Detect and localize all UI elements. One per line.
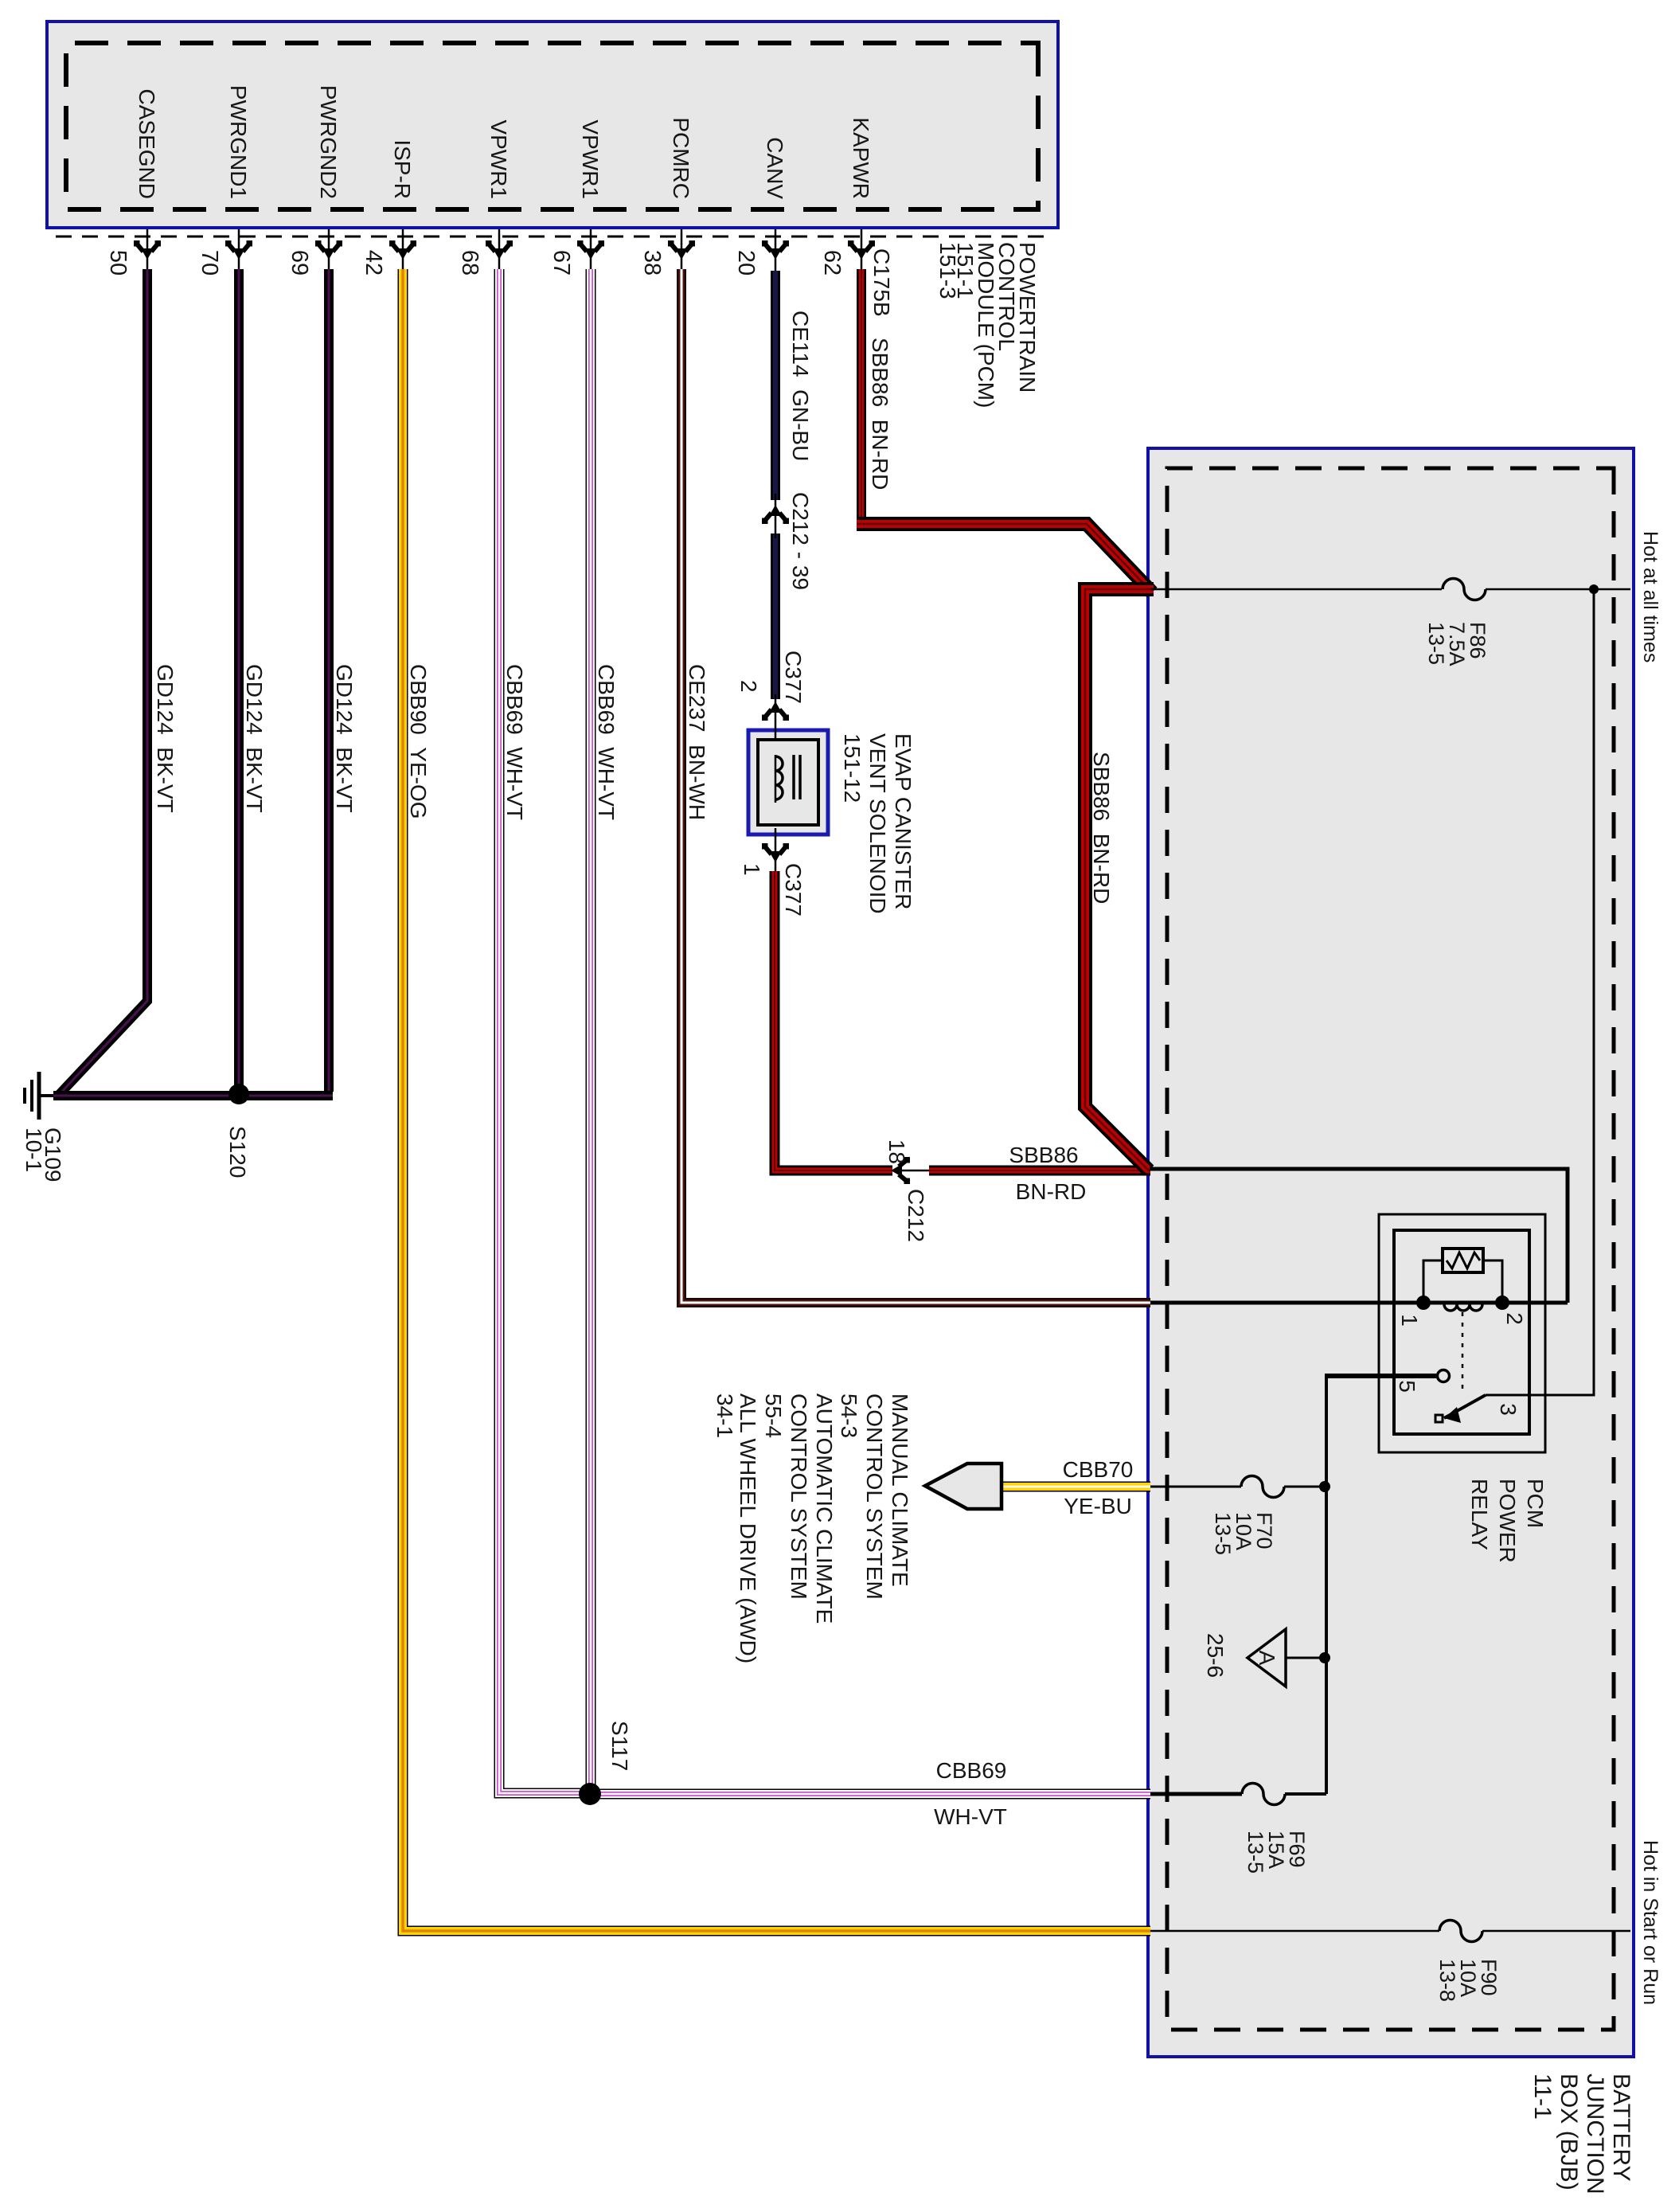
svg-text:CONTROL SYSTEM: CONTROL SYSTEM bbox=[862, 1393, 887, 1600]
svg-text:SBB86: SBB86 bbox=[1009, 1143, 1078, 1167]
svg-text:10-1: 10-1 bbox=[21, 1127, 46, 1172]
svg-text:50: 50 bbox=[105, 250, 131, 276]
svg-text:CANV: CANV bbox=[763, 137, 787, 199]
svg-text:10A: 10A bbox=[1232, 1512, 1255, 1550]
svg-text:70: 70 bbox=[197, 250, 222, 276]
svg-text:CASEGND: CASEGND bbox=[135, 89, 159, 199]
svg-text:GD124 BK-VT: GD124 BK-VT bbox=[332, 664, 357, 813]
svg-text:SBB86 BN-RD: SBB86 BN-RD bbox=[868, 338, 892, 490]
svg-text:MANUAL CLIMATE: MANUAL CLIMATE bbox=[888, 1393, 912, 1587]
svg-text:CBB69 WH-VT: CBB69 WH-VT bbox=[594, 664, 619, 820]
svg-text:F69: F69 bbox=[1285, 1831, 1309, 1868]
svg-text:EVAP CANISTER: EVAP CANISTER bbox=[891, 733, 916, 909]
svg-text:55-4: 55-4 bbox=[761, 1393, 786, 1438]
svg-text:1: 1 bbox=[1397, 1314, 1422, 1327]
svg-text:25-6: 25-6 bbox=[1203, 1633, 1228, 1678]
svg-text:POWER: POWER bbox=[1495, 1479, 1520, 1563]
svg-text:BN-RD: BN-RD bbox=[1016, 1179, 1087, 1204]
svg-text:RELAY: RELAY bbox=[1467, 1479, 1492, 1550]
svg-text:CBB69 WH-VT: CBB69 WH-VT bbox=[502, 664, 527, 820]
svg-text:GD124 BK-VT: GD124 BK-VT bbox=[242, 664, 267, 813]
svg-text:18: 18 bbox=[884, 1139, 909, 1164]
svg-text:151-3: 151-3 bbox=[935, 242, 960, 299]
svg-text:ALL WHEEL DRIVE (AWD): ALL WHEEL DRIVE (AWD) bbox=[736, 1393, 760, 1663]
svg-text:BATTERY: BATTERY bbox=[1608, 2073, 1634, 2182]
svg-text:VENT SOLENOID: VENT SOLENOID bbox=[865, 733, 890, 914]
svg-text:C175B: C175B bbox=[869, 248, 894, 317]
svg-text:F70: F70 bbox=[1252, 1512, 1276, 1550]
svg-text:VPWR1: VPWR1 bbox=[578, 119, 603, 199]
svg-text:2: 2 bbox=[1502, 1312, 1527, 1325]
svg-text:YE-BU: YE-BU bbox=[1064, 1494, 1132, 1518]
svg-text:38: 38 bbox=[639, 250, 665, 276]
svg-text:C212 - 39: C212 - 39 bbox=[788, 492, 813, 590]
svg-text:PWRGND2: PWRGND2 bbox=[316, 85, 341, 199]
svg-text:S117: S117 bbox=[607, 1721, 632, 1771]
svg-text:ISP-R: ISP-R bbox=[390, 139, 415, 199]
svg-text:42: 42 bbox=[361, 250, 386, 276]
svg-text:CBB69: CBB69 bbox=[936, 1758, 1007, 1783]
svg-text:13-5: 13-5 bbox=[1211, 1512, 1235, 1555]
svg-text:13-5: 13-5 bbox=[1424, 622, 1448, 665]
svg-text:15A: 15A bbox=[1264, 1831, 1288, 1869]
svg-text:S120: S120 bbox=[225, 1126, 250, 1178]
svg-text:3: 3 bbox=[1496, 1403, 1521, 1416]
svg-text:VPWR1: VPWR1 bbox=[486, 119, 511, 199]
svg-text:68: 68 bbox=[457, 250, 482, 276]
svg-text:13-8: 13-8 bbox=[1435, 1959, 1459, 2002]
svg-text:F86: F86 bbox=[1466, 622, 1490, 659]
svg-text:F90: F90 bbox=[1477, 1959, 1501, 1996]
svg-text:C212: C212 bbox=[904, 1189, 928, 1242]
svg-text:CBB70: CBB70 bbox=[1063, 1457, 1134, 1482]
svg-text:2: 2 bbox=[736, 680, 761, 693]
svg-text:62: 62 bbox=[819, 250, 845, 276]
svg-text:AUTOMATIC CLIMATE: AUTOMATIC CLIMATE bbox=[812, 1393, 837, 1624]
svg-text:CE114 GN-BU: CE114 GN-BU bbox=[788, 311, 813, 461]
svg-text:54-3: 54-3 bbox=[837, 1393, 861, 1438]
svg-text:BOX (BJB): BOX (BJB) bbox=[1556, 2073, 1582, 2191]
svg-text:11-1: 11-1 bbox=[1529, 2073, 1556, 2120]
svg-text:PCMRC: PCMRC bbox=[669, 117, 693, 199]
svg-text:C377: C377 bbox=[781, 863, 806, 916]
svg-text:151-12: 151-12 bbox=[840, 733, 865, 803]
svg-text:Hot at all times: Hot at all times bbox=[1639, 531, 1661, 662]
svg-text:KAPWR: KAPWR bbox=[849, 117, 873, 199]
svg-text:JUNCTION: JUNCTION bbox=[1582, 2073, 1608, 2194]
svg-text:69: 69 bbox=[287, 250, 312, 276]
svg-text:SBB86 BN-RD: SBB86 BN-RD bbox=[1089, 752, 1114, 904]
svg-text:C377: C377 bbox=[781, 651, 806, 704]
svg-text:A: A bbox=[1255, 1651, 1279, 1666]
svg-text:PCM: PCM bbox=[1523, 1479, 1548, 1528]
svg-text:67: 67 bbox=[549, 250, 574, 276]
svg-text:PWRGND1: PWRGND1 bbox=[226, 85, 251, 199]
svg-text:20: 20 bbox=[733, 250, 759, 276]
svg-text:CONTROL SYSTEM: CONTROL SYSTEM bbox=[787, 1393, 811, 1600]
svg-text:5: 5 bbox=[1395, 1380, 1419, 1393]
svg-text:13-5: 13-5 bbox=[1244, 1831, 1267, 1874]
svg-text:10A: 10A bbox=[1456, 1959, 1480, 1997]
svg-text:Hot in Start or Run: Hot in Start or Run bbox=[1639, 1840, 1661, 2005]
svg-text:CBB90 YE-OG: CBB90 YE-OG bbox=[406, 664, 431, 819]
svg-text:WH-VT: WH-VT bbox=[934, 1804, 1007, 1829]
svg-text:1: 1 bbox=[740, 863, 764, 876]
svg-text:CE237 BN-WH: CE237 BN-WH bbox=[685, 664, 709, 820]
svg-text:34-1: 34-1 bbox=[713, 1393, 737, 1438]
svg-text:GD124 BK-VT: GD124 BK-VT bbox=[153, 664, 178, 813]
svg-text:7.5A: 7.5A bbox=[1445, 622, 1469, 666]
